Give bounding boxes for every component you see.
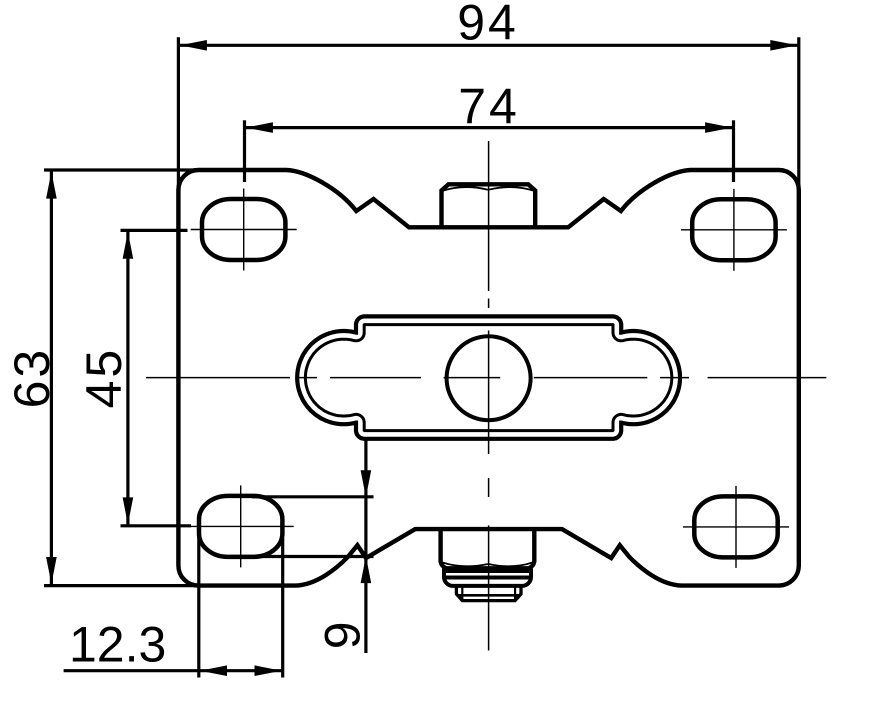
vertical centerline [488,141,490,291]
svg-text:45: 45 [76,347,132,409]
svg-text:94: 94 [457,0,519,51]
dimension 45 line [126,231,129,524]
central emboss outer contour [297,316,680,438]
svg-text:63: 63 [4,347,60,409]
washer flange under nut [444,569,531,586]
svg-text:74: 74 [458,78,520,134]
hex nut top [442,184,536,227]
plate outline [178,170,798,586]
dimension 12.3 line [64,669,282,672]
dimension 94 extension lines [177,37,180,265]
svg-text:9: 9 [315,621,371,649]
kingpin hole circle [447,336,531,420]
dimension 94 line [180,44,798,47]
centerline cross of bottom-right hole [683,526,789,528]
centerline cross of top-right hole [681,229,787,231]
centerline cross of bottom-left hole [188,525,294,527]
hex nut bottom face arcs [443,563,533,567]
dimension 63 extension lines [44,168,265,171]
dimension 45 extension lines [121,229,188,232]
threaded stud [456,586,521,601]
central emboss inner contour [305,325,671,431]
centerline cross of top-left hole [191,229,297,231]
hex nut bottom [441,530,535,569]
slot hole top-left [202,199,285,260]
hex nut top face arcs [443,187,534,191]
dimension 9 reference lines [252,495,374,498]
dimension 74 extension lines [243,120,246,182]
horizontal centerline [146,377,290,379]
dimension 63 line [50,171,53,584]
slot hole bottom-left [199,496,282,557]
dimension 9 line [364,439,367,653]
dimension 12.3 extension lines [197,530,200,678]
dimension 74 line [246,126,733,129]
svg-text:12.3: 12.3 [69,616,166,672]
slot hole bottom-right [694,496,777,557]
slot hole top-right [692,199,775,260]
